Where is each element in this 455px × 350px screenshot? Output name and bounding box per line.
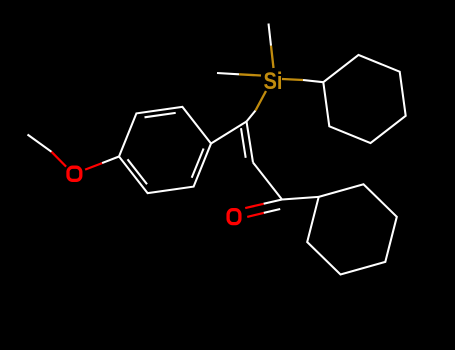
C=O lower line (red half) xyxy=(247,213,264,217)
C=O lower line (white half) xyxy=(264,209,281,213)
Si methyl up (white half) xyxy=(269,24,272,46)
phenyl ring on Si xyxy=(323,55,405,143)
bond C1-Si (olive half) xyxy=(256,91,267,111)
bond Si-phenyl (white half) xyxy=(303,80,323,82)
bond CH3-O (red half near O) xyxy=(52,152,67,167)
C=O upper line (white half) xyxy=(264,200,282,204)
Si methyl left (olive half) xyxy=(239,74,261,75)
aromatic inner line right xyxy=(192,149,204,178)
aromatic inner line left xyxy=(128,159,148,184)
cyclohexyl/phenyl ring bottom right xyxy=(307,184,397,274)
bond C1-Si (white half) xyxy=(247,111,256,122)
atom O (ketone) xyxy=(228,210,240,224)
double bond C1=C2 main xyxy=(247,122,254,163)
bond O-C1ring (white half) xyxy=(102,157,119,164)
double bond C1=C2 inner xyxy=(241,128,246,158)
Si methyl left (white half) xyxy=(217,73,239,74)
bond Si-phenyl (olive half) xyxy=(282,79,303,80)
bond CH3-O (white half) xyxy=(28,135,52,152)
bond C2-C(=O) xyxy=(253,163,282,200)
bond C(=O)-ring xyxy=(282,197,319,200)
bond O-C1ring (red half) xyxy=(85,163,102,170)
bond ring-C1 xyxy=(211,122,247,144)
benzene ring (4-methoxyphenyl) xyxy=(119,107,211,193)
atom O (methoxy) xyxy=(68,167,81,180)
C=O upper line (red half) xyxy=(245,204,263,208)
aromatic inner line top xyxy=(145,113,176,117)
Si methyl up (olive half) xyxy=(271,46,274,68)
svg-text:Si: Si xyxy=(264,68,283,95)
